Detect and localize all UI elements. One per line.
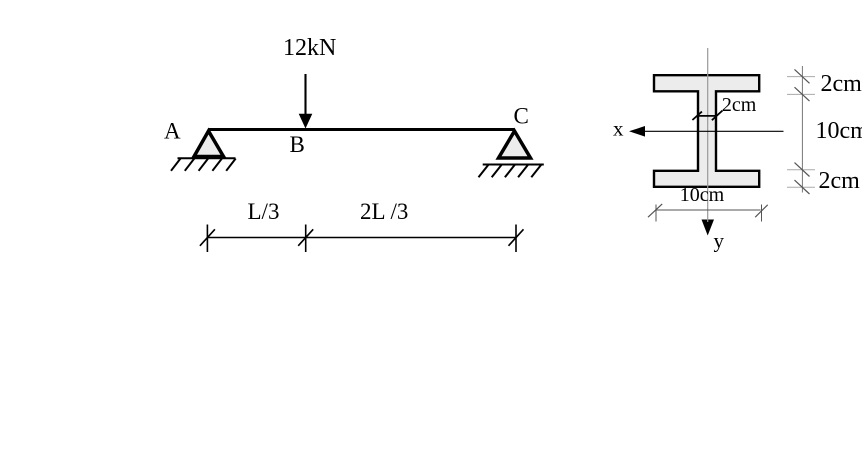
node B label — [290, 132, 305, 157]
svg-text:x: x — [613, 117, 624, 141]
pin support A triangle — [194, 131, 224, 157]
label 10cm flange width — [680, 184, 725, 206]
bottom flange width dimension — [648, 204, 768, 222]
label 2L/3 — [360, 199, 408, 224]
section centerline (y axis) — [707, 48, 709, 222]
beam AC — [209, 128, 515, 131]
svg-text:2cm: 2cm — [821, 71, 862, 97]
load arrow 12kN at B — [299, 74, 313, 129]
label y — [714, 229, 725, 253]
svg-text:2cm: 2cm — [722, 94, 757, 116]
label 12kN — [283, 35, 336, 61]
label 10cm web height — [816, 118, 862, 144]
right tick top-flange upper — [787, 69, 815, 83]
right tick bottom-flange lower — [787, 180, 815, 194]
ground at A — [171, 158, 236, 171]
svg-text:A: A — [164, 119, 181, 144]
svg-text:10cm: 10cm — [680, 184, 725, 206]
label x — [613, 117, 624, 141]
svg-text:2cm: 2cm — [819, 168, 861, 194]
x axis line — [629, 126, 784, 137]
dimension tick at C — [509, 225, 524, 253]
right tick top-flange lower — [787, 87, 815, 101]
label 2cm web — [722, 94, 757, 116]
y axis arrowhead — [702, 220, 715, 236]
web width dimension — [692, 111, 722, 121]
svg-text:B: B — [290, 132, 305, 157]
roller support C triangle — [499, 131, 531, 158]
svg-text:C: C — [514, 104, 529, 129]
dimension tick at A — [200, 225, 215, 253]
label 2cm bottom flange — [819, 168, 861, 194]
node C label — [514, 104, 529, 129]
dimension tick at B — [298, 225, 313, 253]
svg-text:12kN: 12kN — [283, 35, 336, 61]
svg-text:10cm: 10cm — [816, 118, 862, 144]
label L/3 — [248, 199, 280, 224]
svg-text:2L /3: 2L /3 — [360, 199, 408, 224]
svg-text:L/3: L/3 — [248, 199, 280, 224]
svg-text:y: y — [714, 229, 725, 253]
node A label — [164, 119, 181, 144]
label 2cm top flange — [821, 71, 862, 97]
span dimension line — [207, 237, 516, 239]
right dimension line — [801, 66, 803, 193]
ground at C — [479, 165, 544, 178]
right tick bottom-flange upper — [787, 163, 815, 177]
I-beam cross-section — [654, 75, 759, 187]
